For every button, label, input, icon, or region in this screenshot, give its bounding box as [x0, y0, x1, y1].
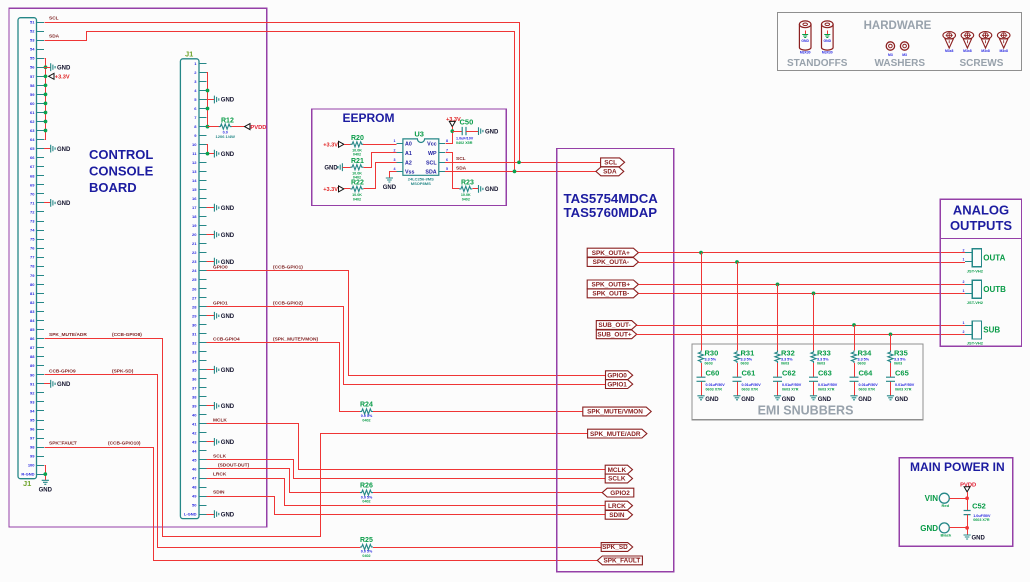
svg-text:0603: 0603: [781, 362, 789, 366]
ic U3 24LC256: [397, 129, 446, 186]
svg-text:MCLK: MCLK: [608, 467, 627, 474]
svg-text:CCB-GPIO4: CCB-GPIO4: [213, 336, 240, 342]
svg-text:71: 71: [30, 200, 35, 205]
wire pin 17 to GND: [207, 207, 215, 209]
svg-text:27: 27: [192, 295, 197, 300]
svg-text:SDIN: SDIN: [609, 512, 625, 519]
svg-text:100: 100: [28, 463, 35, 468]
wire SPK_OUTB+ to output connector: [638, 284, 965, 286]
svg-text:92: 92: [30, 390, 35, 395]
port flag SCL: [601, 158, 625, 167]
svg-text:GND: GND: [221, 152, 235, 158]
svg-text:M3X30: M3X30: [822, 50, 833, 54]
svg-text:55: 55: [30, 56, 35, 61]
capacitor C52: [964, 502, 991, 523]
wire SDA from pin 53: [45, 32, 515, 172]
svg-text:MAIN POWER IN: MAIN POWER IN: [910, 460, 1005, 474]
ground pin 29: [214, 312, 234, 320]
svg-text:39: 39: [192, 403, 197, 408]
svg-text:J1: J1: [23, 479, 31, 488]
wire GND pin to ground node: [949, 527, 967, 529]
svg-text:61: 61: [30, 110, 35, 115]
svg-text:SPK_OUTB+: SPK_OUTB+: [592, 282, 631, 289]
ground pin 56: [51, 63, 71, 71]
svg-text:L-GND: L-GND: [184, 512, 197, 517]
svg-text:OUTPUTS: OUTPUTS: [950, 218, 1012, 233]
svg-text:77: 77: [30, 255, 35, 260]
junction dot pin 11: [206, 152, 210, 156]
svg-text:19: 19: [192, 223, 197, 228]
svg-text:GND: GND: [705, 397, 719, 403]
capacitor C65: [886, 368, 915, 391]
wire pin 35 to GND: [207, 369, 215, 371]
wire SCL from U3 to flag: [445, 162, 601, 164]
svg-text:1: 1: [394, 139, 396, 143]
ground Vss: [383, 178, 397, 191]
svg-text:45: 45: [192, 457, 197, 462]
standoff M3X30 at x=805.2: [799, 21, 811, 54]
svg-text:41: 41: [192, 421, 197, 426]
svg-text:0.0 5%: 0.0 5%: [361, 550, 373, 554]
svg-text:17: 17: [192, 205, 197, 210]
svg-text:70: 70: [30, 191, 35, 196]
port flag SCLK: [605, 474, 632, 483]
wire R33 column: [813, 293, 815, 395]
svg-text:94: 94: [30, 408, 35, 413]
connector pin GND: [920, 523, 952, 538]
svg-text:0.0 5%: 0.0 5%: [361, 495, 373, 499]
capacitor C61: [733, 368, 762, 391]
svg-text:0603 X7R: 0603 X7R: [782, 387, 799, 391]
svg-text:(CCB-GPIO8): (CCB-GPIO8): [112, 332, 142, 338]
port flag LRCK: [605, 501, 632, 510]
svg-text:49: 49: [192, 494, 197, 499]
svg-text:SUB_OUT-: SUB_OUT-: [598, 322, 630, 329]
screw M3x8 at x=985.5: [979, 32, 992, 53]
svg-text:48: 48: [192, 485, 197, 490]
svg-text:SCL: SCL: [49, 16, 59, 22]
port flag MCLK: [605, 465, 632, 474]
ground pin 43: [214, 438, 234, 446]
wire R23 to ground: [472, 188, 478, 190]
junction dot SPK_OUTA+: [699, 251, 703, 255]
resistor R24: [360, 402, 373, 423]
svg-text:SCL: SCL: [604, 160, 617, 167]
svg-text:2: 2: [963, 248, 965, 252]
junction dots pins 56-63: [44, 65, 48, 132]
svg-text:GND: GND: [221, 512, 235, 518]
resistor R25: [360, 537, 373, 558]
svg-text:JST-VH2: JST-VH2: [967, 341, 984, 346]
svg-text:HARDWARE: HARDWARE: [864, 20, 932, 32]
svg-text:3: 3: [394, 158, 396, 162]
ground pin 17: [214, 204, 234, 212]
ground pin 20: [214, 231, 234, 239]
connector J1 (pins 51-100): [18, 18, 44, 479]
port flag SUB_OUT-: [596, 321, 636, 330]
svg-text:69: 69: [30, 182, 35, 187]
svg-text:0402 X5R: 0402 X5R: [456, 141, 473, 145]
svg-text:56: 56: [30, 65, 35, 70]
wire LRCK from pin 47: [207, 479, 606, 506]
title TAS5754MDCA TAS5760MDAP: [564, 191, 659, 220]
svg-text:0603: 0603: [894, 362, 902, 366]
svg-text:51: 51: [30, 20, 35, 25]
svg-text:2: 2: [963, 280, 965, 284]
svg-text:R24: R24: [360, 402, 373, 409]
wire pin 56 to GND: [44, 67, 51, 69]
svg-text:C50: C50: [460, 118, 474, 127]
svg-text:C64: C64: [859, 368, 874, 377]
ground pin 65: [51, 145, 71, 153]
wire CCB-GPIO9 / SPK-SD from pin 90: [45, 375, 361, 548]
svg-text:24: 24: [192, 268, 197, 273]
svg-text:C60: C60: [706, 368, 720, 377]
ground pin 91: [51, 380, 71, 388]
svg-text:83: 83: [30, 309, 35, 314]
sheet box TAS5754MDCA/TAS5760MDAP: [557, 149, 674, 572]
svg-text:68: 68: [30, 173, 35, 178]
sheet box CONTROL CONSOLE BOARD: [9, 8, 267, 527]
svg-text:0603 X7R: 0603 X7R: [742, 387, 759, 391]
svg-text:M3x8: M3x8: [999, 49, 1008, 53]
svg-text:12: 12: [192, 160, 197, 165]
svg-text:EEPROM: EEPROM: [343, 111, 395, 125]
wire MCLK from pin 41: [207, 424, 606, 470]
svg-text:42: 42: [192, 430, 197, 435]
capacitor C63: [809, 368, 838, 391]
wire CCB-GPIO4 from pin 32: [207, 343, 361, 412]
svg-text:GND: GND: [485, 129, 499, 135]
port flag SDA: [596, 167, 624, 176]
svg-text:Vcc: Vcc: [427, 142, 436, 148]
svg-text:44: 44: [192, 448, 197, 453]
svg-text:SPK_MUTE/ADR: SPK_MUTE/ADR: [590, 431, 641, 438]
svg-text:4: 4: [394, 167, 396, 171]
svg-text:72: 72: [30, 209, 35, 214]
power +3.3V for R20: [323, 141, 344, 148]
port flag GPIO2: [602, 488, 634, 497]
svg-text:0603 X7R: 0603 X7R: [895, 387, 912, 391]
svg-text:Vss: Vss: [405, 170, 414, 176]
wire pin 43 to GND: [207, 441, 215, 443]
svg-text:GND: GND: [39, 488, 53, 494]
svg-text:MCLK: MCLK: [213, 418, 227, 424]
junction dot R-GND: [43, 472, 47, 476]
svg-text:96: 96: [30, 427, 35, 432]
wire R20 to A0: [363, 144, 396, 146]
wire R21 to A1: [364, 153, 397, 168]
svg-text:2: 2: [394, 149, 396, 153]
svg-text:1: 1: [963, 258, 965, 262]
resistor R32: [775, 349, 795, 366]
svg-text:C62: C62: [782, 368, 796, 377]
standoff M3X30 at x=827.3: [822, 21, 834, 54]
junction dot SUB_OUT+: [889, 332, 893, 336]
svg-text:JST-VH2: JST-VH2: [967, 300, 984, 305]
svg-text:59: 59: [30, 92, 35, 97]
ground R23: [479, 185, 500, 193]
connector SUB JST-VH2: [963, 321, 1001, 346]
ground pin 71: [51, 199, 71, 207]
svg-text:85: 85: [30, 327, 35, 332]
ground pin 23: [214, 258, 234, 266]
wire SPK_OUTA+ to output connector: [638, 252, 965, 254]
svg-text:(CCB-GPIO2): (CCB-GPIO2): [273, 300, 303, 306]
svg-text:58: 58: [30, 83, 35, 88]
svg-text:M3x8: M3x8: [945, 49, 954, 53]
junction dot SPK_OUTA-: [735, 260, 739, 264]
wire Vss to ground: [390, 172, 397, 179]
capacitor C62: [773, 368, 802, 391]
wire WP to R23: [446, 153, 460, 189]
svg-text:GND: GND: [221, 440, 235, 446]
wire pin 71 to GND: [44, 202, 51, 204]
svg-text:GND: GND: [383, 185, 397, 191]
wire GPIO1 from pin 28: [207, 307, 606, 385]
svg-text:97: 97: [30, 436, 35, 441]
svg-text:10: 10: [192, 142, 197, 147]
port flag SPK_MUTE/VMON: [583, 407, 651, 416]
svg-text:TAS5760MDAP: TAS5760MDAP: [564, 205, 658, 220]
pin numbers U3: [394, 139, 449, 171]
svg-text:WP: WP: [428, 151, 437, 157]
junction dot SUB_OUT-: [852, 323, 856, 327]
ground R35 column: [887, 396, 909, 403]
svg-text:43: 43: [192, 439, 197, 444]
svg-text:GND: GND: [221, 206, 235, 212]
power +3.3V pin 57: [49, 73, 70, 80]
wire GPIO0 from pin 24: [207, 271, 606, 376]
svg-text:0603 X7R: 0603 X7R: [818, 387, 835, 391]
svg-text:C52: C52: [972, 502, 986, 511]
svg-text:LRCK: LRCK: [213, 472, 227, 478]
svg-text:SPK_FAULT: SPK_FAULT: [49, 441, 77, 447]
svg-text:M3: M3: [902, 53, 907, 57]
wire SCL from pin 51: [45, 23, 520, 163]
svg-text:5: 5: [446, 167, 448, 171]
svg-text:GND: GND: [485, 187, 499, 193]
svg-text:(CCB-GPIO10): (CCB-GPIO10): [108, 441, 141, 447]
svg-text:1: 1: [963, 289, 965, 293]
svg-text:SDA: SDA: [603, 169, 617, 176]
svg-text:30: 30: [192, 322, 197, 327]
resistor R26: [360, 483, 373, 504]
ground R-GND: [39, 480, 53, 493]
ground pin 5: [214, 96, 234, 104]
svg-text:GND: GND: [221, 98, 235, 104]
svg-text:A0: A0: [405, 142, 412, 148]
svg-text:60: 60: [30, 101, 35, 106]
svg-text:SPK_FAULT: SPK_FAULT: [603, 558, 640, 565]
svg-text:20: 20: [192, 232, 197, 237]
svg-text:81: 81: [30, 291, 35, 296]
svg-text:GND: GND: [782, 397, 796, 403]
ground R34 column: [850, 396, 872, 403]
resistor R23: [459, 179, 474, 201]
wire R22 to A2: [364, 163, 397, 189]
ground R30 column: [697, 396, 719, 403]
svg-text:21: 21: [192, 241, 197, 246]
svg-text:37: 37: [192, 385, 197, 390]
svg-text:33: 33: [192, 349, 197, 354]
svg-text:SPK_SD: SPK_SD: [602, 544, 628, 551]
svg-text:47: 47: [192, 476, 197, 481]
svg-text:J1: J1: [185, 50, 193, 59]
junction dot VIN: [965, 496, 969, 500]
svg-text:SPK_MUTE/VMON: SPK_MUTE/VMON: [587, 409, 643, 416]
svg-text:GND: GND: [858, 397, 872, 403]
ground for R21: [324, 163, 342, 171]
wire SDIN from pin 49: [207, 497, 606, 515]
svg-text:SDA: SDA: [425, 170, 436, 176]
svg-text:JST-VH2: JST-VH2: [967, 268, 984, 273]
wire C50 to ground: [466, 131, 479, 133]
svg-text:0603: 0603: [741, 362, 749, 366]
svg-text:Red: Red: [942, 503, 950, 508]
sheet box ANALOG OUTPUTS: [940, 199, 1021, 346]
wire R34 column: [854, 325, 856, 396]
svg-text:R20: R20: [351, 135, 364, 142]
svg-text:C63: C63: [818, 368, 832, 377]
wire pin 65 to GND: [44, 148, 51, 150]
svg-text:2: 2: [963, 330, 965, 334]
port flag SDIN: [605, 510, 632, 519]
junction dot SPK_OUTB+: [776, 283, 780, 287]
svg-text:90: 90: [30, 372, 35, 377]
wire pin 23 to GND: [207, 261, 215, 263]
wire pin 100 / R-GND to ground: [45, 466, 46, 481]
wire R24 to SPK_MUTE/VMON flag: [373, 411, 583, 413]
wire L-GND to ground: [207, 514, 215, 516]
svg-text:R-GND: R-GND: [21, 472, 34, 477]
svg-text:R12: R12: [221, 117, 234, 124]
svg-text:GND: GND: [221, 314, 235, 320]
port flag GPIO0: [606, 371, 633, 380]
svg-text:34: 34: [192, 358, 197, 363]
svg-text:50: 50: [192, 503, 197, 508]
power PVDD (main power): [960, 482, 976, 492]
port flag SPK_OUTB-: [587, 289, 638, 298]
svg-text:13: 13: [192, 169, 197, 174]
svg-text:53: 53: [30, 38, 35, 43]
svg-text:ANALOG: ANALOG: [953, 203, 1009, 218]
svg-text:R26: R26: [360, 483, 373, 490]
svg-text:+3.3V: +3.3V: [323, 143, 338, 149]
svg-text:67: 67: [30, 164, 35, 169]
wire pin 20 to GND: [207, 234, 215, 236]
svg-text:SCL: SCL: [456, 156, 466, 162]
svg-text:SPK_MUTE/ADR: SPK_MUTE/ADR: [49, 332, 87, 338]
pin numbers J1 1-50: [184, 61, 197, 517]
svg-text:79: 79: [30, 273, 35, 278]
svg-text:0.0 5%: 0.0 5%: [361, 414, 373, 418]
svg-text:GND: GND: [324, 165, 338, 171]
svg-text:SDA: SDA: [49, 34, 60, 40]
svg-text:0402: 0402: [362, 419, 370, 423]
resistor R30: [698, 349, 718, 366]
wire Vcc to +3.3V node: [446, 132, 453, 144]
svg-text:GPIO0: GPIO0: [213, 264, 228, 270]
wire R26 to GPIO2 flag: [373, 492, 602, 494]
svg-text:VIN: VIN: [925, 494, 939, 503]
svg-text:CCB-GPIO9: CCB-GPIO9: [49, 368, 76, 374]
svg-text:OUTB: OUTB: [983, 285, 1006, 294]
svg-text:GND: GND: [57, 65, 71, 71]
port flag SPK_OUTA-: [587, 258, 638, 267]
wire SDOUT-DUT from pin 46: [207, 469, 361, 493]
port flag SUB_OUT+: [596, 330, 636, 339]
svg-text:SPK_OUTB-: SPK_OUTB-: [592, 291, 629, 298]
wire R31 column: [737, 262, 739, 396]
svg-text:BOARD: BOARD: [89, 180, 137, 195]
svg-text:TAS5754MDCA: TAS5754MDCA: [564, 191, 659, 206]
junction dot SPK_OUTB-: [812, 292, 816, 296]
svg-text:40: 40: [192, 412, 197, 417]
svg-text:GND: GND: [221, 404, 235, 410]
port flag SPK_MUTE/ADR: [588, 429, 647, 438]
svg-text:GND: GND: [824, 39, 832, 43]
svg-text:A1: A1: [405, 151, 412, 157]
svg-text:GND: GND: [895, 397, 909, 403]
svg-text:95: 95: [30, 418, 35, 423]
svg-text:M3x8: M3x8: [963, 49, 972, 53]
svg-text:M3: M3: [888, 53, 893, 57]
title CONTROL CONSOLE BOARD: [89, 147, 154, 195]
wire pin 5 to GND: [207, 99, 215, 101]
washer M3 at x=890.4: [886, 42, 894, 57]
wire pin 39 to GND: [207, 405, 215, 407]
svg-text:1206 1/4W: 1206 1/4W: [216, 134, 236, 139]
svg-text:SPK_OUTA-: SPK_OUTA-: [593, 259, 629, 266]
svg-text:C65: C65: [895, 368, 909, 377]
svg-text:GPIO2: GPIO2: [610, 490, 630, 497]
ground L-GND: [214, 510, 234, 518]
svg-text:0603: 0603: [705, 362, 713, 366]
svg-text:88: 88: [30, 354, 35, 359]
svg-text:GND: GND: [221, 368, 235, 374]
svg-text:99: 99: [30, 454, 35, 459]
svg-text:GPIO0: GPIO0: [607, 372, 627, 379]
svg-text:0402: 0402: [353, 197, 361, 201]
svg-text:86: 86: [30, 336, 35, 341]
wire R35 column: [890, 334, 892, 396]
svg-text:EMI SNUBBERS: EMI SNUBBERS: [758, 404, 854, 418]
port flag SPK_OUTB+: [587, 280, 638, 289]
ground pin 39: [214, 402, 234, 410]
junction dot C50 node: [450, 129, 454, 133]
svg-text:26: 26: [192, 286, 197, 291]
svg-text:GND: GND: [57, 201, 71, 207]
svg-text:82: 82: [30, 300, 35, 305]
svg-text:R25: R25: [360, 537, 373, 544]
screw M3x8 at x=949.2: [943, 32, 956, 53]
svg-text:R23: R23: [461, 179, 474, 186]
wire R25 to SPK_SD flag: [373, 547, 601, 549]
resistor R31: [734, 349, 754, 366]
svg-text:+3.3V: +3.3V: [55, 75, 70, 81]
power +3.3V for R22: [323, 186, 344, 193]
svg-text:23: 23: [192, 259, 197, 264]
capacitor C50: [452, 118, 473, 145]
svg-text:A2: A2: [405, 161, 412, 167]
svg-text:0603 X7R: 0603 X7R: [973, 518, 990, 522]
junction dot GND: [965, 526, 969, 530]
wire GND pins 10-11: [207, 145, 215, 154]
svg-text:87: 87: [30, 345, 35, 350]
sheet box MAIN POWER IN: [899, 458, 1013, 547]
svg-text:91: 91: [30, 381, 35, 386]
